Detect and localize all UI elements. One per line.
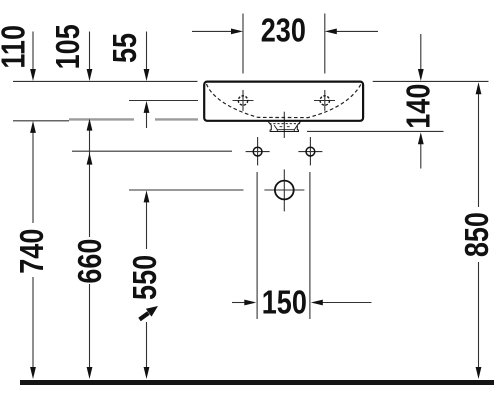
tap hole left dashed circle bbox=[238, 96, 247, 105]
dimension line 740 shaft upper part bbox=[32, 131, 34, 223]
drain outlet centerline bbox=[283, 112, 285, 138]
drain hole circle bbox=[275, 181, 294, 200]
arrowhead 55 up bbox=[144, 101, 150, 113]
svg-text:230: 230 bbox=[261, 13, 306, 49]
drain outlet dashed inner marks bbox=[280, 126, 290, 128]
550 reference line (drain level) bbox=[129, 189, 244, 191]
230 extension line left bbox=[242, 14, 244, 74]
drain hole crosshair horizontal bbox=[264, 189, 304, 191]
tap hole right crosshair horizontal bbox=[314, 100, 335, 102]
basin outline bbox=[204, 82, 363, 121]
arrowhead 660 up bbox=[87, 153, 93, 165]
dimension line 660/105 shaft upper part bbox=[89, 129, 91, 237]
660 reference line (mounting holes level) bbox=[72, 150, 232, 152]
dimension line 140 lower arrow shaft bbox=[420, 143, 422, 169]
tap hole right crosshair vertical bbox=[324, 90, 326, 111]
tap hole left crosshair horizontal bbox=[233, 100, 254, 102]
dimension line 740 shaft lower part bbox=[32, 277, 34, 367]
top reference line left (basin top level) bbox=[13, 80, 198, 82]
grey accessory line segment 2 bbox=[155, 118, 198, 120]
tap hole right dashed circle bbox=[320, 96, 329, 105]
arrowhead 150 left bbox=[311, 300, 323, 306]
mounting hole right circle bbox=[306, 147, 315, 156]
230 dimension arrow shaft right bbox=[336, 30, 378, 32]
floor line bbox=[20, 380, 494, 385]
drain outlet inner profile bbox=[274, 125, 297, 131]
arrowhead 110 up bbox=[30, 121, 36, 133]
arrowhead 55 down bbox=[144, 69, 150, 81]
svg-text:740: 740 bbox=[14, 229, 50, 274]
140 reference line (drain bottom level) bbox=[307, 130, 444, 132]
svg-text:550: 550 bbox=[128, 255, 164, 300]
dimension line 110 upper arrow shaft bbox=[32, 32, 34, 71]
arrowhead 550 floor down bbox=[144, 367, 150, 379]
svg-text:110: 110 bbox=[0, 25, 32, 69]
arrowhead 230 left bbox=[325, 29, 337, 35]
arrowhead 550 up bbox=[144, 190, 150, 202]
drain outlet outer profile bbox=[268, 121, 302, 132]
basin interior dashed curve bbox=[207, 84, 362, 118]
mounting hole left circle bbox=[253, 147, 262, 156]
svg-text:150: 150 bbox=[262, 285, 307, 321]
grey accessory line segment 1 bbox=[69, 118, 134, 120]
tap hole left crosshair vertical bbox=[242, 90, 244, 111]
tap hole level reference line (55) bbox=[129, 100, 198, 102]
dimension line 550 shaft upper part bbox=[146, 201, 148, 249]
dimension line 850 shaft lower part bbox=[478, 262, 480, 367]
arrowhead 850 up bbox=[476, 82, 482, 94]
oblique arrow 550 pointer bbox=[140, 306, 159, 320]
230 dimension arrow shaft left bbox=[192, 30, 232, 32]
dimension line 660 shaft lower part bbox=[89, 284, 91, 367]
150 extension line right bbox=[309, 172, 311, 319]
arrowhead 230 right bbox=[231, 29, 243, 35]
svg-text:140: 140 bbox=[401, 84, 437, 129]
svg-text:105: 105 bbox=[50, 24, 86, 69]
svg-text:850: 850 bbox=[460, 212, 496, 257]
mounting hole right crosshair vertical bbox=[309, 137, 311, 165]
dimension line 550 shaft lower part bbox=[146, 322, 148, 367]
top reference line right bbox=[373, 80, 489, 82]
110/740 reference line bbox=[13, 120, 69, 122]
150 dimension arrow shaft right bbox=[322, 302, 372, 304]
dimension line 105 upper arrow shaft bbox=[89, 32, 91, 71]
arrowhead 105 down bbox=[87, 69, 93, 81]
drain hole crosshair vertical bbox=[283, 169, 285, 211]
mounting hole left crosshair horizontal bbox=[246, 151, 270, 153]
arrowhead 740 floor down bbox=[30, 367, 36, 379]
mounting hole right crosshair horizontal bbox=[298, 151, 322, 153]
arrowhead 110 down bbox=[30, 69, 36, 81]
dimension line 850 shaft upper part bbox=[478, 94, 480, 207]
svg-text:55: 55 bbox=[107, 33, 143, 63]
arrowhead 105 up bbox=[87, 119, 93, 131]
dimension line 140 upper arrow shaft bbox=[420, 34, 422, 70]
dimension line 55 lower arrow shaft bbox=[146, 112, 148, 128]
mounting hole left crosshair vertical bbox=[257, 137, 259, 165]
dimension line 55 upper arrow shaft bbox=[146, 32, 148, 71]
arrowhead 660 floor down bbox=[87, 367, 93, 379]
150 dimension arrow shaft left bbox=[232, 302, 245, 304]
arrowhead 140 down bbox=[418, 69, 424, 81]
arrowhead 850 floor down bbox=[476, 367, 482, 379]
arrowhead 140 up bbox=[418, 132, 424, 144]
230 extension line right bbox=[324, 14, 326, 74]
drain outlet dashed top line bbox=[269, 123, 302, 125]
arrowhead 150 right bbox=[244, 300, 256, 306]
150 extension line left bbox=[256, 172, 258, 319]
svg-text:660: 660 bbox=[72, 239, 108, 284]
